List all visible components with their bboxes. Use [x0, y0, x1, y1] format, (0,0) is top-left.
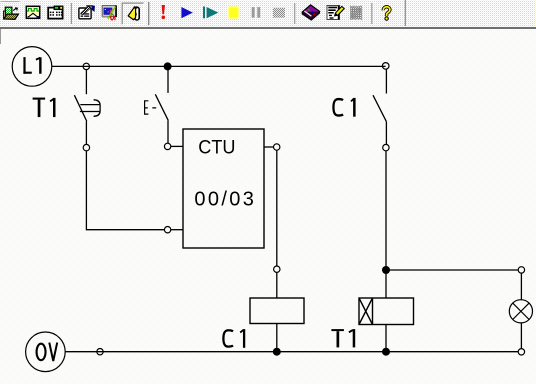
wire top rail L1 — [52, 65, 386, 67]
toolbar icon: step (teal) — [203, 7, 218, 19]
wire E- branch lower — [167, 121, 169, 144]
junction T1 coil at bottom rail — [382, 348, 390, 356]
node terminal on bottom rail — [97, 349, 103, 355]
label L1 — [23, 57, 40, 74]
wire junction to lamp — [386, 269, 518, 271]
toolbar icon: waveform viewer — [26, 6, 39, 18]
wire C1 contact branch upper — [385, 69, 387, 93]
wire terminal to C1 coil — [276, 273, 278, 299]
node terminal CTU count input — [164, 143, 170, 149]
wire E- branch upper — [167, 70, 169, 93]
toolbar icon: monitor settings — [102, 6, 117, 21]
junction C1 coil at bottom rail — [273, 348, 281, 356]
toolbar icon: help (question mark) — [383, 7, 390, 21]
toolbar icon: alert (red exclamation) — [162, 5, 166, 19]
toolbar icon: help book — [302, 5, 320, 20]
node terminal CTU reset input — [164, 227, 170, 233]
node terminal lamp top — [518, 267, 524, 273]
toolbar background — [0, 0, 536, 27]
toolbar icon: open file (folder) — [4, 7, 19, 19]
node terminal CTU output — [274, 144, 280, 150]
contact T1 blade (NC timed contact) — [74, 95, 86, 121]
contact C1 blade (NO contact) — [373, 95, 386, 121]
wire C1 contact to junction — [385, 151, 387, 270]
svg-text:CTU: CTU — [198, 136, 235, 158]
label T1 (top contact) — [33, 98, 55, 117]
toolbar button: sound enabled (pressed) — [122, 3, 144, 25]
toolbar separator 4 — [371, 3, 373, 24]
label C1 (coil) — [223, 329, 244, 348]
wire C1 contact branch lower — [385, 121, 387, 144]
node terminal lamp bottom — [518, 349, 524, 355]
toolbar separator 2 — [148, 2, 150, 25]
svg-text:00/03: 00/03 — [194, 188, 254, 210]
wire CTU output pin — [264, 146, 273, 148]
toolbar button edge fragment top-left — [1, 1, 20, 3]
wire terminal to CTU box left upper pin — [171, 145, 183, 147]
power source L1 circle — [12, 47, 52, 87]
junction top rail to E- branch — [164, 62, 172, 70]
label 0V — [37, 343, 58, 361]
wire T1 coil to bottom rail — [385, 325, 387, 352]
toolbar icon: edit note (blue pen) — [79, 6, 95, 19]
toolbar icon: print preview (disabled) — [351, 6, 362, 19]
left window edge fragment — [0, 29, 2, 44]
toolbar icon: pause (gray bars) — [252, 7, 260, 18]
wire T1 to CTU reset (down and right) — [86, 151, 164, 230]
label T1 (coil) — [331, 329, 354, 347]
coil T1 (timer coil with X cell) — [359, 298, 414, 325]
toolbar icon: edit document (yellow pencil) — [327, 6, 344, 20]
toolbar icon: run (blue play) — [181, 7, 192, 18]
node terminal C1 coil input — [274, 266, 280, 272]
node terminal on top rail (T1 tap) — [83, 63, 89, 69]
power source 0V circle — [26, 332, 66, 372]
wire junction to T1 coil — [385, 270, 387, 298]
wire T1 branch upper — [85, 70, 87, 94]
toolbar icon: control panel keypad — [48, 6, 63, 18]
node terminal at top rail right end — [382, 63, 389, 70]
wire lamp top — [520, 273, 522, 300]
node terminal below C1 contact — [383, 144, 389, 150]
toolbar icon: stop (disabled) — [273, 8, 285, 18]
wire CTU output down to C1 coil — [276, 150, 278, 266]
label C1 (top contact) — [333, 98, 354, 117]
node terminal below T1 contact — [83, 144, 89, 150]
wire T1 branch lower — [85, 121, 87, 144]
wire terminal to CTU box left lower pin — [171, 229, 183, 231]
coil C1 (counter coil) — [250, 298, 304, 324]
junction T1 coil / lamp branch — [382, 266, 390, 274]
contact E- blade (NO pushbutton) — [155, 94, 168, 120]
wire C1 coil to bottom rail — [276, 324, 278, 352]
lamp H1 (circle with cross) — [509, 300, 532, 323]
timer delay symbol on T1 contact — [80, 100, 100, 117]
counter CTU box — [183, 129, 264, 248]
toolbar separator 1 — [70, 3, 72, 24]
wire lamp bottom — [520, 323, 522, 349]
toolbar separator 5 — [404, 0, 406, 26]
wire bottom rail 0V — [65, 351, 518, 353]
toolbar separator 3 — [294, 3, 296, 24]
toolbar icon: pause lamp (yellow) — [228, 7, 239, 19]
label E- (stroke text) — [144, 100, 156, 114]
